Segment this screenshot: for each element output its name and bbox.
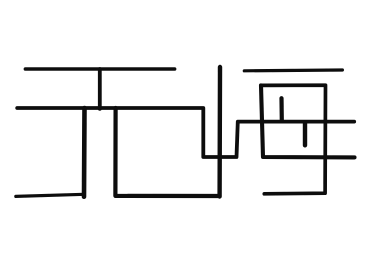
- inner tick 1: [279, 98, 283, 120]
- box top right bottom: [261, 85, 326, 194]
- inner tick 2: [303, 123, 307, 146]
- tall vertical: [217, 67, 222, 197]
- top bar right: [244, 68, 342, 72]
- connector vertical: [98, 69, 102, 109]
- right leg and foot: [115, 108, 219, 196]
- left foot: [16, 194, 85, 196]
- long bar with maze corners: [17, 108, 354, 157]
- box left and bottom bar: [261, 85, 355, 157]
- left leg: [82, 108, 87, 197]
- top bar left: [25, 67, 174, 71]
